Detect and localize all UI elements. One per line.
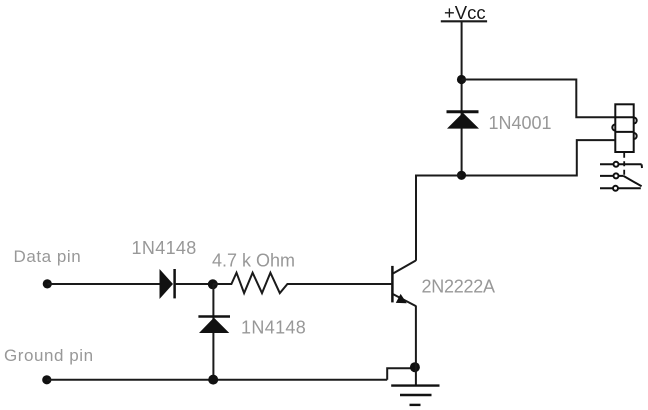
wire: data pin to D1 xyxy=(47,283,160,285)
diode D2 1N4148 triangle (pointing up) xyxy=(199,318,229,333)
transistor Q1 emitter diagonal xyxy=(393,294,416,306)
relay K1 internal line 1 xyxy=(615,116,633,118)
wire: Vcc junction to relay coil top xyxy=(462,80,616,118)
node: base network junction xyxy=(208,279,218,289)
svg-text:+Vcc: +Vcc xyxy=(444,2,486,23)
wire: relay coil bottom to collector node xyxy=(462,140,616,175)
svg-text:2N2222A: 2N2222A xyxy=(422,277,496,297)
transistor Q1 base bar xyxy=(391,266,394,303)
diode D1 1N4148 triangle (pointing right) xyxy=(160,269,174,299)
diode D2 1N4148 cathode bar xyxy=(198,315,230,318)
wire: junction down to D2 and ground rail xyxy=(212,284,214,380)
resistor R1 4.7k zigzag xyxy=(213,273,391,293)
net +Vcc underline bar xyxy=(441,20,487,22)
transistor Q1 collector diagonal xyxy=(393,261,416,274)
node: emitter junction xyxy=(410,362,420,372)
node: relay/collector junction xyxy=(457,171,466,180)
relay contact circle top xyxy=(614,162,619,167)
svg-text:1N4001: 1N4001 xyxy=(489,113,552,133)
relay K1 armature dashed link xyxy=(623,153,625,176)
diode D3 1N4001 cathode bar xyxy=(447,110,479,113)
relay contact: top fixed (NC) line xyxy=(600,163,642,165)
relay contact circle middle xyxy=(614,173,619,178)
ground symbol bar 3 xyxy=(410,404,421,406)
wire: D1 to junction xyxy=(175,283,213,285)
relay contact circle bottom xyxy=(613,186,618,191)
svg-text:1N4148: 1N4148 xyxy=(132,238,197,258)
transistor Q1 emitter arrow xyxy=(396,294,407,303)
wire: rail step up to emitter node xyxy=(387,368,414,380)
svg-text:Data pin: Data pin xyxy=(14,247,82,266)
relay contact: common middle line xyxy=(600,175,623,177)
relay contact: top end tick xyxy=(641,164,643,168)
relay K1 left bump terminal xyxy=(612,125,615,131)
node: shunt diode / rail junction xyxy=(208,375,218,385)
node: Vcc/relay-top junction xyxy=(457,75,466,84)
relay K1 right bump terminal 1 xyxy=(634,118,637,124)
terminal: data pin xyxy=(43,279,52,288)
relay armature blade xyxy=(623,176,641,186)
wire: junction to transistor collector xyxy=(416,176,462,261)
relay K1 coil body xyxy=(615,104,633,152)
diode D1 cathode bar xyxy=(173,269,176,298)
svg-text:Ground pin: Ground pin xyxy=(4,346,94,365)
terminal: ground pin xyxy=(42,375,51,384)
wire: +Vcc vertical rail xyxy=(461,22,463,176)
relay K1 internal line 2 xyxy=(615,131,633,133)
ground symbol bar 1 xyxy=(391,384,439,386)
diode D3 1N4001 triangle (pointing up) xyxy=(447,113,479,129)
relay contact: bottom fixed (NO) line xyxy=(600,187,641,189)
wire: ground rail xyxy=(47,379,387,381)
svg-text:1N4148: 1N4148 xyxy=(241,318,306,338)
relay K1 right bump terminal 2 xyxy=(634,133,637,139)
svg-text:4.7 k Ohm: 4.7 k Ohm xyxy=(212,251,295,271)
ground symbol bar 2 xyxy=(400,394,432,396)
wire: emitter down to ground xyxy=(415,306,417,386)
